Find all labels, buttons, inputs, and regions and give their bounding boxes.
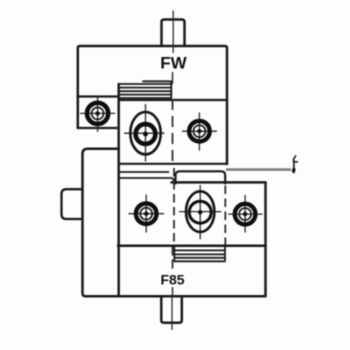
svg-text:F85: F85 bbox=[160, 272, 184, 288]
svg-text:FW: FW bbox=[160, 54, 187, 73]
